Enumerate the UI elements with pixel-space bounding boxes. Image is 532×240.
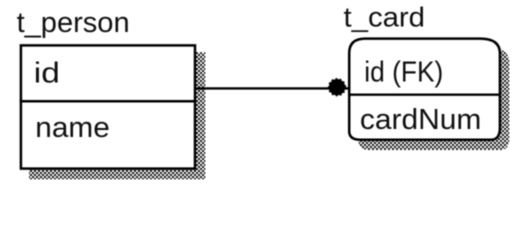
entity t_card box (348, 39, 501, 140)
divider t_person (20, 100, 197, 103)
svg-text:t_person: t_person (17, 7, 130, 39)
svg-text:id (FK): id (FK) (364, 56, 443, 88)
svg-text:name: name (35, 112, 110, 144)
entity t_card shadow (359, 48, 510, 150)
relationship dot (child end) (329, 79, 346, 96)
svg-text:cardNum: cardNum (360, 104, 482, 136)
svg-text:t_card: t_card (344, 1, 426, 32)
divider t_card (348, 94, 501, 96)
entity t_person box (20, 45, 197, 168)
svg-text:id: id (34, 57, 60, 89)
entity t_person shadow (29, 52, 205, 179)
wire connector t_person to t_card (194, 87, 349, 89)
